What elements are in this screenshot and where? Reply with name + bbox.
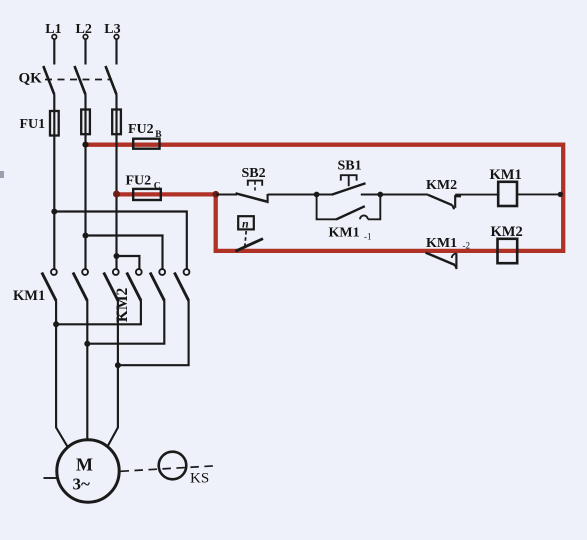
wire: motor lead W (pole3+pole6) xyxy=(108,301,189,447)
svg-text:M: M xyxy=(76,455,93,475)
svg-text:KS: KS xyxy=(190,471,209,487)
speed relay contact KS (NO, on rung 2) xyxy=(236,216,264,251)
interlock contact KM1-2 (NC) xyxy=(426,236,470,269)
svg-text:-1: -1 xyxy=(364,232,372,242)
fuse FU2C (control fuse, phase C) xyxy=(126,174,161,200)
pushbutton SB1 (NO start) xyxy=(332,159,366,195)
svg-text:KM1: KM1 xyxy=(13,288,45,304)
wire: to KM1 coil xyxy=(455,194,498,196)
pushbutton SB2 (NC stop) xyxy=(236,166,268,203)
svg-text:n: n xyxy=(242,217,249,231)
motor M 3~ xyxy=(44,440,120,502)
wire: L2 crossover to KM2 pole c5 xyxy=(86,236,163,270)
coil KM1 xyxy=(490,167,522,206)
wire: KM1 coil to right rail xyxy=(517,193,562,195)
svg-text:KM2: KM2 xyxy=(114,288,131,323)
svg-text:KM2: KM2 xyxy=(491,224,523,240)
wire: L3 phase vertical xyxy=(115,39,117,269)
terminal L1 xyxy=(45,22,61,39)
contactor KM1 main contacts (poles 1-3) xyxy=(13,269,119,304)
shaft dashed link to speed relay xyxy=(121,466,216,472)
speed relay KS xyxy=(159,452,209,487)
svg-text:FU1: FU1 xyxy=(20,117,46,132)
node: L3 to FU2C junction xyxy=(113,191,120,198)
svg-text:KM1: KM1 xyxy=(490,167,522,183)
svg-text:SB2: SB2 xyxy=(242,166,266,181)
wire: L1 phase vertical xyxy=(53,39,55,269)
svg-text:SB1: SB1 xyxy=(338,159,362,174)
svg-text:3~: 3~ xyxy=(73,475,91,494)
wire: control rung 1 left xyxy=(216,194,237,196)
wire: motor lead V (pole2+pole5) xyxy=(87,301,164,442)
terminal L2 xyxy=(76,22,92,39)
scan artifact left edge xyxy=(0,171,4,178)
wire: L3 link to KM2 pole c4 xyxy=(117,256,140,269)
svg-text:FU2: FU2 xyxy=(126,174,152,189)
red highlight loop: plug-braking circuit path xyxy=(86,145,563,251)
node: corner junction to control rung xyxy=(212,191,219,198)
node on right rail xyxy=(558,192,563,197)
node B xyxy=(377,192,383,198)
node: L2 to FU2B junction xyxy=(82,142,88,148)
svg-text:KM1: KM1 xyxy=(329,226,360,241)
wire: motor lead U (pole1+pole4) xyxy=(56,301,141,448)
svg-text:QK: QK xyxy=(19,71,43,87)
node on L3 xyxy=(114,253,120,259)
switch QK (3-pole knife switch) xyxy=(19,66,117,95)
fuse FU2B (control fuse, phase B) xyxy=(128,122,162,149)
wire: L1 crossover to KM2 pole c6 xyxy=(54,212,187,270)
node A xyxy=(314,192,320,198)
fuse FU1 (3 cartridges) xyxy=(20,110,121,136)
svg-text:KM2: KM2 xyxy=(426,178,457,193)
svg-text:KM1: KM1 xyxy=(426,236,457,251)
wire: SB2 to node A xyxy=(268,194,332,196)
svg-text:FU2: FU2 xyxy=(128,122,154,137)
contactor KM2 main contacts (poles 4-6) xyxy=(114,269,189,322)
svg-text:-2: -2 xyxy=(463,241,471,251)
wire: SB1 right to node B xyxy=(361,194,428,196)
coil KM2 xyxy=(491,224,523,263)
node on L1 xyxy=(51,209,57,215)
node on L2 xyxy=(83,233,89,239)
terminal L3 xyxy=(104,22,120,39)
interlock contact KM2 (NC) xyxy=(426,178,461,209)
wire: L2 phase vertical xyxy=(84,39,86,269)
auxiliary contact KM1-1 (self hold) xyxy=(317,195,381,242)
